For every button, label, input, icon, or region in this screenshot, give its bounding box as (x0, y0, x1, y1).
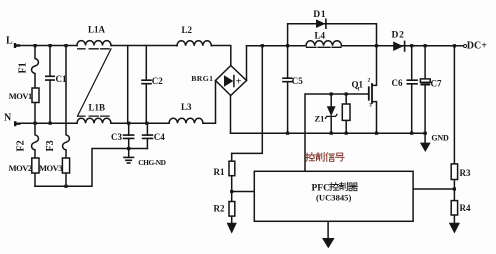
svg-text:BRG1: BRG1 (191, 74, 213, 83)
svg-text:CHG-ND: CHG-ND (138, 158, 165, 167)
svg-text:N: N (4, 113, 12, 124)
svg-text:C4: C4 (154, 132, 165, 142)
svg-text:F2: F2 (16, 140, 27, 151)
svg-text:C2: C2 (152, 76, 163, 86)
svg-text:C6: C6 (392, 78, 403, 88)
svg-text:C3: C3 (111, 132, 122, 142)
svg-text:R2: R2 (214, 204, 225, 214)
svg-text:MOV1: MOV1 (9, 91, 32, 101)
svg-text:C5: C5 (292, 76, 303, 86)
svg-text:GND: GND (431, 133, 449, 142)
svg-text:1: 1 (357, 87, 360, 93)
svg-text:F1: F1 (18, 62, 29, 73)
svg-text:Z1: Z1 (315, 114, 325, 124)
svg-text:R1: R1 (214, 167, 225, 177)
svg-text:L: L (6, 36, 13, 47)
svg-text:L1A: L1A (88, 25, 106, 35)
svg-text:2: 2 (368, 77, 371, 83)
svg-text:MOV2: MOV2 (9, 163, 32, 173)
svg-text:R3: R3 (460, 168, 471, 178)
svg-text:(UC3845): (UC3845) (316, 192, 351, 202)
svg-text:L2: L2 (182, 25, 193, 35)
svg-text:L3: L3 (181, 102, 192, 112)
svg-text:MOV3: MOV3 (39, 163, 62, 173)
svg-text:R4: R4 (460, 203, 471, 213)
svg-text:L1B: L1B (89, 103, 106, 113)
svg-text:D1: D1 (313, 10, 326, 20)
svg-text:L4: L4 (315, 31, 326, 41)
svg-text:C7: C7 (431, 79, 442, 89)
svg-text:+: + (236, 77, 242, 88)
svg-text:F3: F3 (45, 140, 56, 151)
svg-text:3: 3 (369, 103, 372, 109)
svg-text:DC+: DC+ (467, 40, 487, 51)
svg-text:C1: C1 (56, 74, 67, 84)
svg-text:D2: D2 (392, 31, 405, 41)
